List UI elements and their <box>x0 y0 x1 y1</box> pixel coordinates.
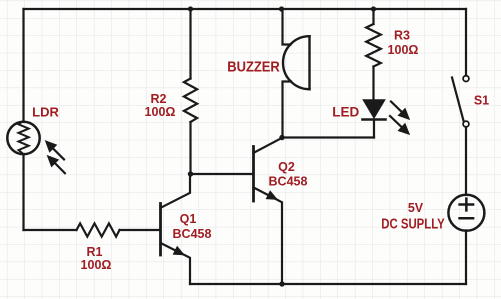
svg-text:5V: 5V <box>408 201 424 215</box>
LDR light arrow 2 <box>48 156 65 174</box>
wire R2 bottom to node <box>189 122 191 174</box>
wire R3 top drop <box>372 9 374 24</box>
LED light arrow 2 <box>390 116 409 134</box>
wire node to Q2 base <box>191 173 253 175</box>
svg-text:LED: LED <box>332 105 359 120</box>
svg-text:DC SUPLLY: DC SUPLLY <box>381 217 445 233</box>
node dot Q2 collector <box>279 135 284 140</box>
svg-text:S1: S1 <box>474 94 489 108</box>
node dot R2/Q1/Q2 <box>188 171 193 176</box>
transistor Q2 <box>254 138 283 284</box>
wire left drop to LDR <box>22 9 24 122</box>
node dot top rail R3 <box>371 6 376 11</box>
buzzer BZ1 <box>283 36 309 89</box>
svg-text:R1: R1 <box>87 245 103 259</box>
wire bottom-left horizontal <box>24 229 77 231</box>
svg-text:R3: R3 <box>394 29 410 43</box>
wire R1 to Q1 base <box>120 229 160 231</box>
wire bottom rail <box>190 283 466 285</box>
svg-text:BC458: BC458 <box>269 175 308 189</box>
resistor R3 <box>366 24 381 67</box>
resistor R2 <box>184 79 197 123</box>
wire buzzer bottom lead <box>283 82 292 138</box>
node dot bottom rail Q2 emitter <box>279 281 284 286</box>
svg-text:100Ω: 100Ω <box>145 105 176 119</box>
wire LDR bottom to corner <box>22 154 24 230</box>
LED D1 <box>363 100 386 138</box>
wire switch to battery <box>465 127 467 194</box>
wire buzzer top lead <box>283 9 291 45</box>
svg-text:BC458: BC458 <box>173 227 212 241</box>
node dot top rail R2 <box>188 6 193 11</box>
LDR body <box>7 121 39 154</box>
wire right drop to switch <box>465 9 467 76</box>
wire node to LED <box>282 136 374 138</box>
svg-text:LDR: LDR <box>32 105 59 120</box>
wire top rail <box>24 8 467 10</box>
transistor Q1 <box>161 174 191 284</box>
svg-text:100Ω: 100Ω <box>81 258 112 272</box>
node dot top rail buzzer <box>279 6 284 11</box>
svg-text:100Ω: 100Ω <box>388 43 419 57</box>
svg-text:BUZZER: BUZZER <box>227 59 280 76</box>
battery V1 5V <box>448 195 484 231</box>
svg-text:R2: R2 <box>151 92 167 106</box>
LED light arrow 1 <box>391 102 409 120</box>
switch S1 <box>452 76 469 127</box>
svg-text:Q1: Q1 <box>180 212 197 226</box>
wire battery to bottom rail <box>465 230 467 284</box>
wire R3 to LED <box>372 67 374 101</box>
resistor R1 <box>77 223 120 236</box>
wire R2 top drop <box>189 9 191 79</box>
LDR light arrow 1 <box>46 141 64 159</box>
svg-text:Q2: Q2 <box>278 160 295 174</box>
